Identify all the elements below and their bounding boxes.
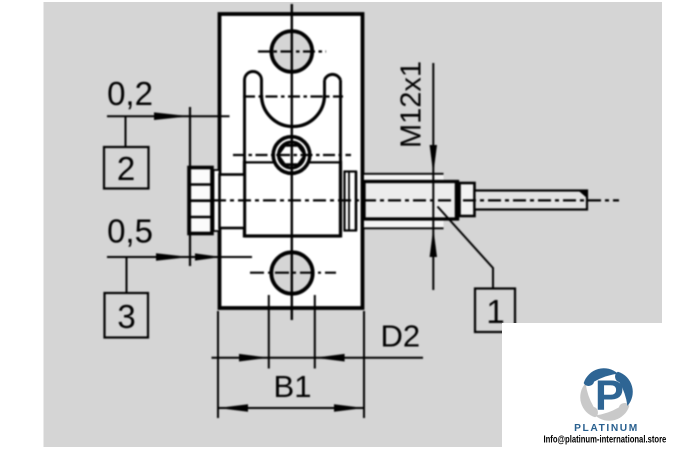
leader to box 1 [438, 207, 494, 289]
U-slot bottom arc [262, 95, 325, 127]
watermark email [544, 433, 667, 444]
node main vertical centerline [291, 4, 293, 320]
svg-text:1: 1 [486, 293, 504, 330]
svg-text:3: 3 [117, 298, 135, 335]
bottom petal gray [595, 403, 629, 421]
watermark white panel [502, 323, 675, 450]
svg-text:M12x1: M12x1 [396, 61, 428, 148]
cable [475, 191, 588, 210]
svg-text:B1: B1 [274, 369, 312, 404]
box 2 [125, 117, 127, 146]
hex adjustment screw front view [233, 137, 351, 174]
slot centerline [243, 95, 343, 97]
sensor hex nut side view [189, 168, 212, 234]
central white disc [592, 380, 621, 409]
svg-text:0,5: 0,5 [107, 213, 153, 250]
box 3 [126, 258, 128, 292]
threaded barrel [364, 182, 457, 220]
sensor neck through plate [220, 175, 245, 229]
washer left [214, 170, 220, 231]
step section [460, 183, 475, 216]
bottom mounting hole [271, 252, 312, 293]
svg-text:D2: D2 [381, 319, 421, 354]
thread crest band M12 [364, 174, 444, 229]
bottom hole centerline [250, 272, 336, 274]
left prong cap [245, 72, 262, 81]
right petal blue [615, 372, 633, 406]
cable end mark [577, 190, 588, 199]
Platinum logo [580, 368, 633, 421]
right prong cap [325, 74, 341, 80]
sensor axis centerline [213, 199, 619, 201]
svg-text:P: P [595, 372, 624, 419]
wire right prong inner wall [323, 80, 326, 95]
wire left prong outer wall [243, 80, 246, 162]
dimension B1 [217, 311, 219, 418]
central P glyph [595, 372, 624, 419]
top petal blue [584, 368, 618, 386]
box 1 [475, 289, 515, 333]
fork slot (U-slot with prongs) [245, 72, 341, 163]
svg-text:PLATINUM: PLATINUM [574, 423, 639, 434]
top hole centerline [258, 50, 326, 52]
svg-text:0,2: 0,2 [107, 75, 153, 112]
clamp block [245, 161, 341, 238]
wire right prong outer wall [339, 80, 342, 162]
bracket plate [220, 14, 363, 308]
svg-text:Info@platinum-international.st: Info@platinum-international.store [544, 433, 667, 444]
top mounting hole [271, 31, 312, 72]
left petal gray [580, 383, 598, 417]
svg-text:2: 2 [117, 150, 135, 187]
dimension D2 [268, 295, 270, 369]
extension line nut face [189, 107, 191, 266]
wire left prong inner wall [260, 80, 263, 95]
washer right [345, 172, 357, 231]
barrel end cap [455, 180, 460, 221]
